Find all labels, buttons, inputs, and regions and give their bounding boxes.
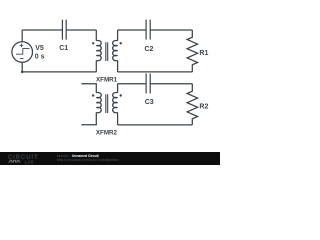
svg-text:V5: V5 [35, 45, 44, 52]
svg-text:http://circuitlab.com/c/41/7xv: http://circuitlab.com/c/41/7xvbd8yof2w [57, 158, 119, 162]
svg-text:XFMR2: XFMR2 [96, 130, 118, 137]
svg-text:R2: R2 [199, 103, 208, 110]
svg-text:LAB: LAB [25, 159, 34, 164]
svg-text:0 s: 0 s [35, 53, 45, 60]
svg-text:CIRCUIT: CIRCUIT [8, 155, 39, 161]
svg-text:R1: R1 [199, 50, 208, 57]
svg-text:XFMR1: XFMR1 [96, 77, 118, 84]
svg-text:C1: C1 [59, 45, 68, 52]
svg-text:C2: C2 [145, 46, 154, 53]
svg-text:C3: C3 [145, 99, 154, 106]
